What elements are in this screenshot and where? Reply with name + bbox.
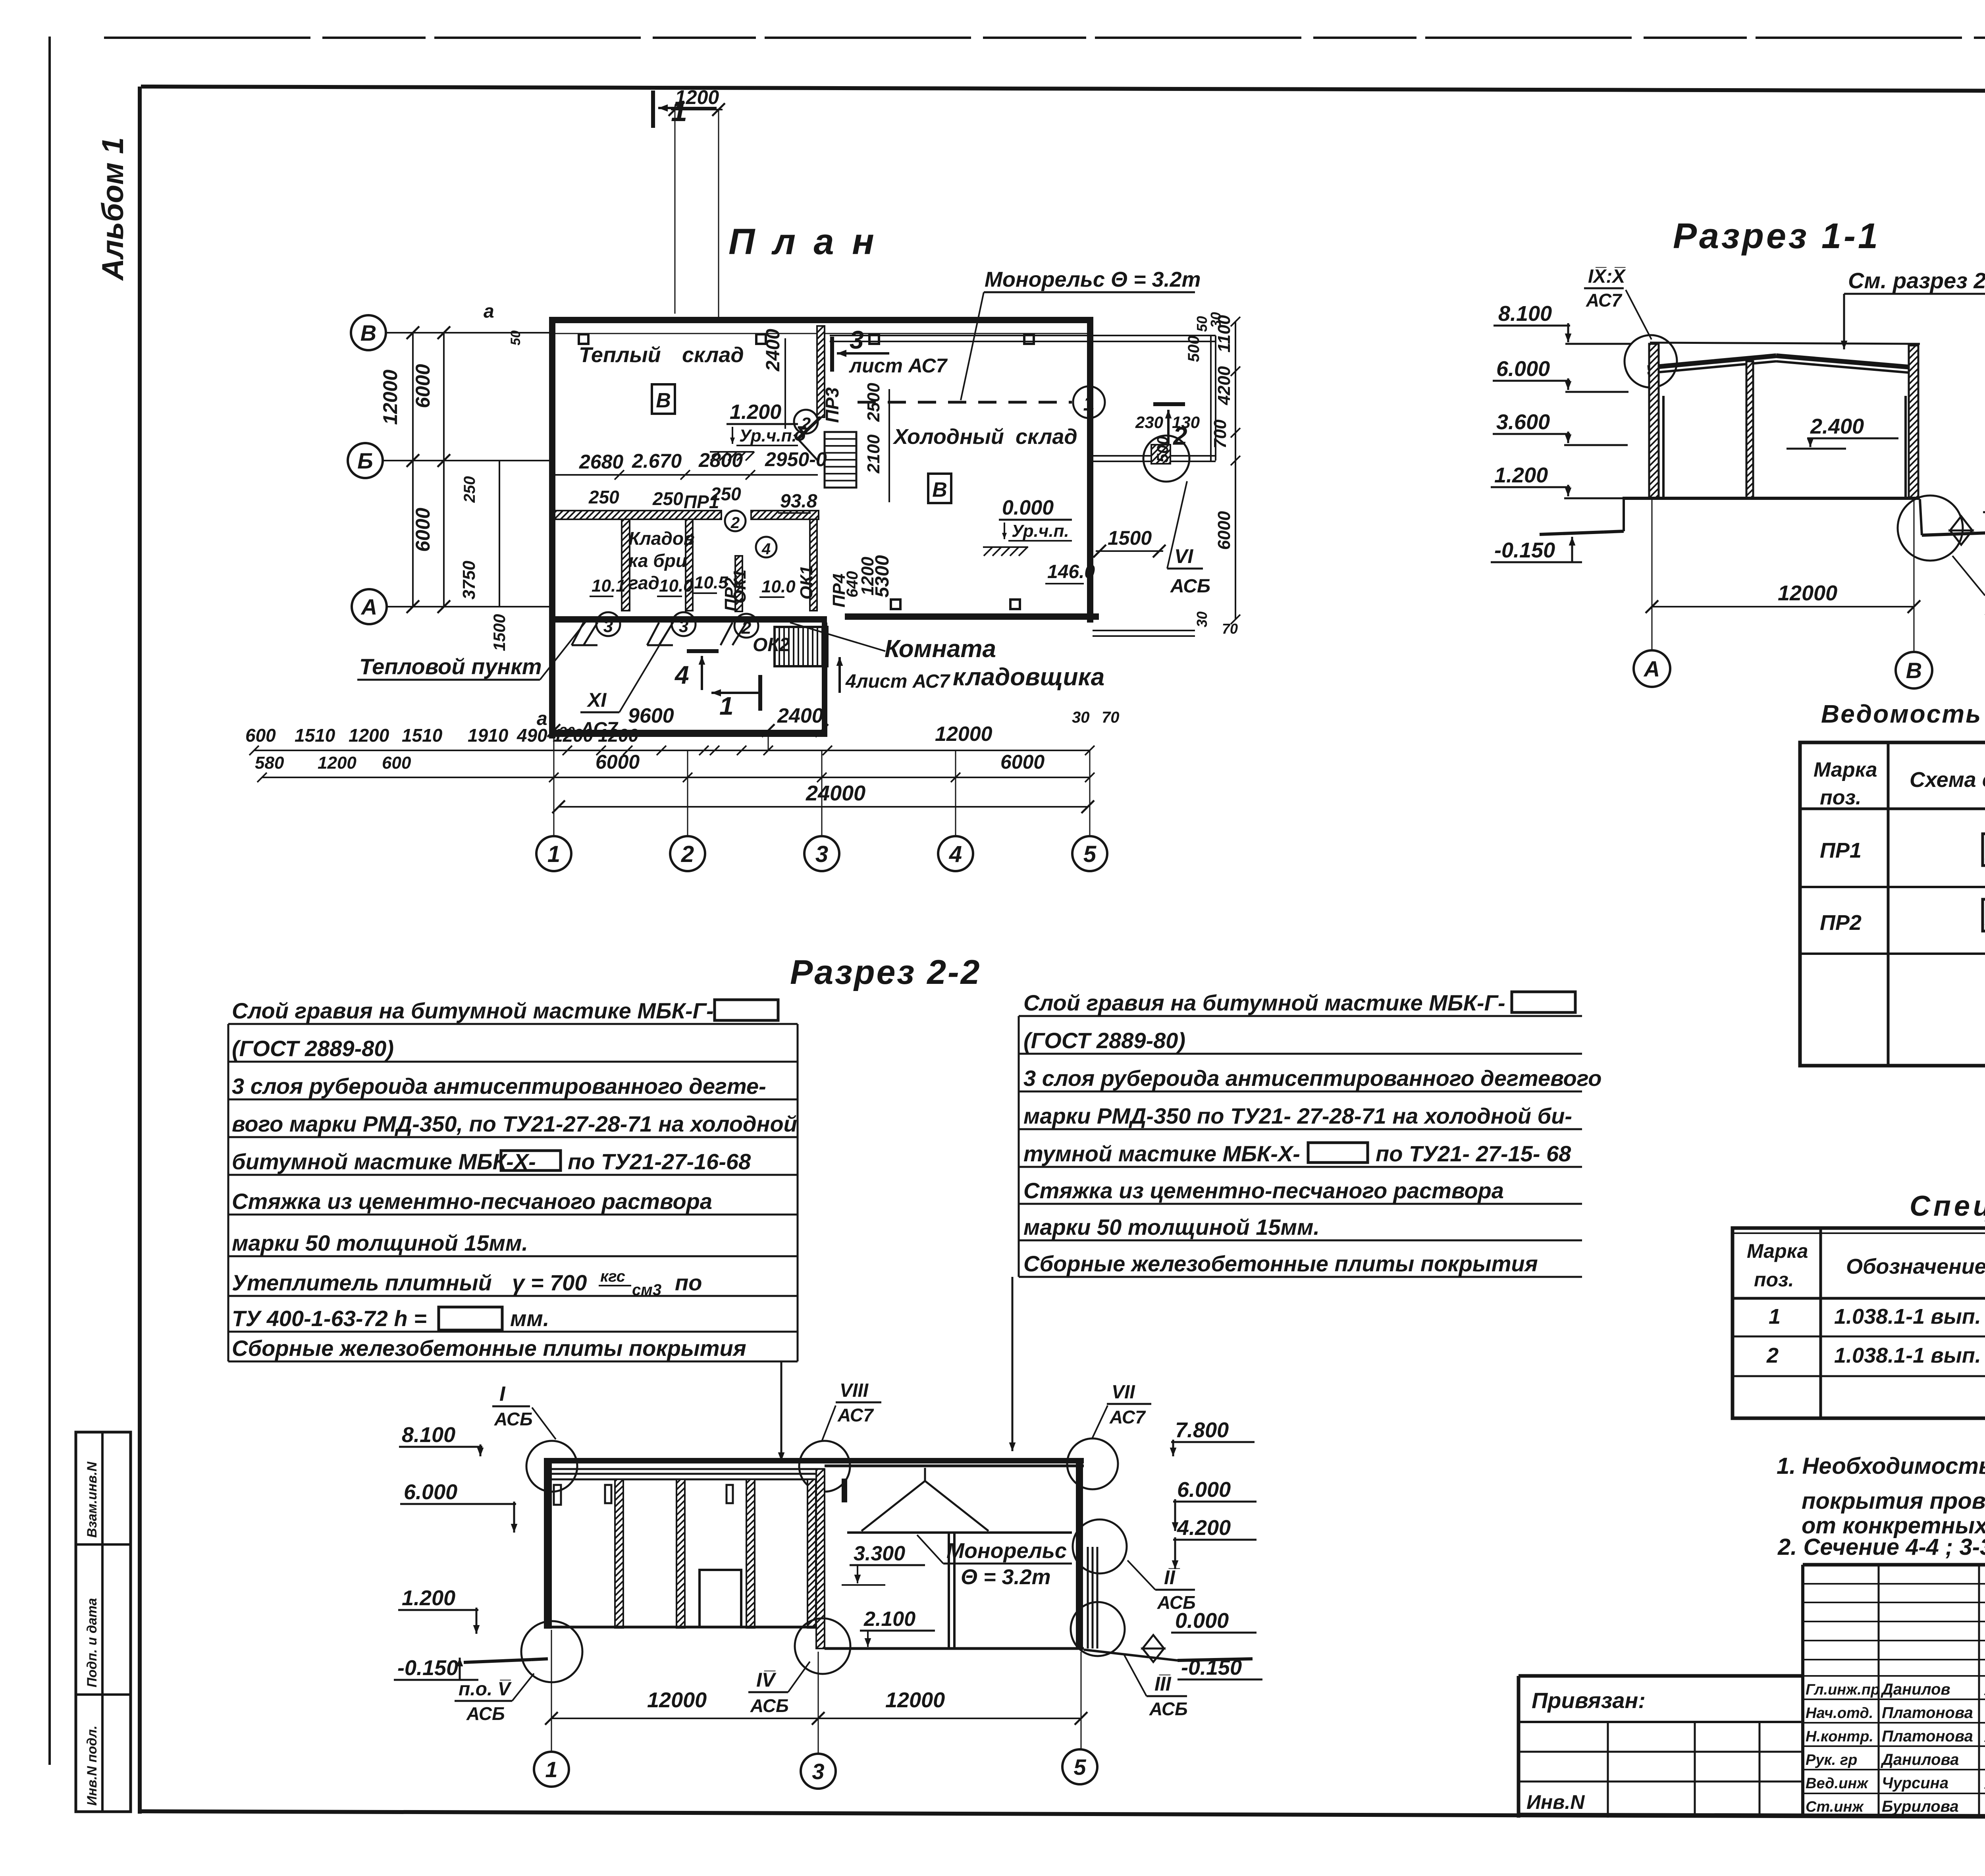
plan grid bubbles [536,750,1107,871]
svg-text:5300: 5300 [872,555,893,598]
svg-text:Ур.ч.п.: Ур.ч.п. [1012,521,1069,541]
svg-text:1500: 1500 [1108,527,1152,549]
svg-text:1200: 1200 [553,725,594,746]
section 2-2 roof slab [544,1458,1084,1479]
svg-text:Сборные железобетонные плиты: Сборные железобетонные плиты покрытия [232,1336,746,1361]
svg-text:п.о. V̅: п.о. V̅ [459,1679,512,1700]
see section 2-2 note [1841,268,1985,349]
section 2-2 interior columns [605,1479,816,1628]
dims near stair bay [763,329,889,502]
svg-text:VIII: VIII [840,1380,869,1401]
svg-text:Марка: Марка [1747,1240,1808,1262]
title block outline [1519,1565,1985,1818]
detail mark V ACB right [1952,556,1985,619]
svg-text:В: В [1906,658,1922,683]
svg-text:490: 490 [516,725,547,746]
svg-text:Подп. и дата: Подп. и дата [85,1598,100,1687]
svg-text:500: 500 [1154,436,1172,463]
svg-text:Утеплитель плитный: Утеплитель плитный [232,1270,492,1295]
dims 230 130 at detail [1135,413,1200,432]
svg-text:4200: 4200 [1214,366,1234,405]
plan top exterior wall [549,317,1090,334]
leader arrows from spec text to section [778,1277,1016,1461]
section 2-2 door in hall [700,1570,741,1627]
svg-text:АСБ: АСБ [1149,1699,1188,1719]
svg-text:а: а [484,301,494,322]
svg-text:2400: 2400 [777,704,823,727]
svg-text:2.670: 2.670 [632,450,682,472]
svg-text:Монорельс Θ = 3.2т: Монорельс Θ = 3.2т [985,268,1201,291]
svg-text:Разрез 1-1: Разрез 1-1 [1673,216,1880,256]
section 1-1 level -0.150 [1491,537,1582,562]
plan dim 24000 [552,781,1094,813]
svg-text:1200: 1200 [675,86,719,108]
svg-text:1.038.1-1 вып. 1: 1.038.1-1 вып. 1 [1834,1344,1985,1367]
svg-text:АС7: АС7 [1109,1407,1146,1427]
svg-text:гад: гад [628,573,659,593]
svg-text:А: А [360,594,377,619]
svg-text:2.400: 2.400 [1810,415,1864,438]
door mark circles on south wall [596,612,758,638]
svg-text:В: В [360,320,376,345]
svg-text:2: 2 [681,841,694,867]
svg-text:3: 3 [679,617,688,636]
svg-text:битумной мастике МБК-Х-: битумной мастике МБК-Х- [232,1149,536,1174]
door mark circle 1 at monorail end [1073,386,1105,418]
svg-text:1: 1 [1083,392,1095,415]
svg-text:2400: 2400 [763,329,784,372]
svg-text:АСБ: АСБ [750,1695,789,1716]
svg-text:Слой гравия на битумной маст: Слой гравия на битумной мастике МБК-Г- [1023,990,1505,1015]
section mark 3 with sheet note [832,326,948,377]
dim 1500 at right wall [1093,527,1166,557]
svg-text:Нач.отд.: Нач.отд. [1806,1705,1873,1722]
svg-text:Монорельс: Монорельс [946,1539,1067,1563]
svg-text:0.000: 0.000 [1002,496,1054,519]
svg-text:1: 1 [719,692,734,720]
svg-text:Вед.инж: Вед.инж [1806,1775,1869,1792]
interior partition walls (hatched) [622,519,817,611]
svg-text:1.200: 1.200 [1494,463,1548,487]
dim row 2680 2670 2800 2950-0 [555,448,827,480]
svg-text:10.0: 10.0 [761,577,796,596]
svg-text:6.000: 6.000 [1496,357,1550,381]
svg-text:марки 50 толщиной 15мм.: марки 50 толщиной 15мм. [232,1230,528,1255]
svg-text:кладовщика: кладовщика [953,663,1104,691]
section mark 2 right [1153,404,1187,453]
room label warm storage [579,343,744,367]
svg-text:1. Необходимость устройства: 1. Необходимость устройства пароизоляции… [1777,1453,1985,1479]
section 2-2 grid bubbles [534,1749,1097,1789]
stair bay wall with diagonal [794,326,825,461]
svg-text:Стяжка из цементно-песчаного: Стяжка из цементно-песчаного раствора [232,1189,712,1214]
svg-text:по: по [675,1270,702,1295]
detail mark po V ACB [455,1674,534,1724]
svg-text:ПР1: ПР1 [1820,839,1862,862]
svg-text:230: 230 [1135,413,1163,432]
svg-text:лист АС7: лист АС7 [849,355,948,377]
svg-text:АСБ: АСБ [466,1703,505,1724]
svg-text:10.0: 10.0 [659,576,693,596]
svg-text:ка бри: ка бри [628,550,687,571]
svg-text:Сборные железобетонные плиты: Сборные железобетонные плиты покрытия [1023,1251,1538,1276]
svg-text:(ГОСТ 2889-80): (ГОСТ 2889-80) [1023,1028,1185,1053]
svg-text:Θ = 3.2т: Θ = 3.2т [961,1565,1051,1589]
svg-text:XI: XI [586,689,607,711]
svg-text:1200: 1200 [349,725,389,746]
svg-text:1: 1 [545,1757,557,1782]
svg-text:Н.контр.: Н.контр. [1806,1728,1873,1745]
svg-text:1510: 1510 [295,725,335,746]
svg-text:АСБ: АСБ [1170,576,1210,597]
section 2-2 level 2.100 [860,1608,935,1647]
svg-text:4.200: 4.200 [1177,1516,1231,1540]
left margin stamp table [76,1432,131,1812]
svg-text:30: 30 [1072,709,1090,726]
svg-text:ПР2: ПР2 [1820,911,1862,935]
svg-text:3 слоя рубероида антисептир: 3 слоя рубероида антисептированного дегт… [1023,1066,1601,1091]
svg-text:ОК2: ОК2 [753,634,790,656]
svg-text:Рук. гр: Рук. гр [1806,1752,1857,1768]
svg-text:70: 70 [1222,621,1238,637]
plan annex right wall [822,623,827,737]
section 1-1 center column [1746,361,1753,498]
section 2-2 right hall center column [949,1533,954,1648]
svg-text:1: 1 [547,841,560,867]
label heat point [357,619,588,680]
svg-text:130: 130 [1172,413,1200,432]
entrance stair OK2 [775,627,827,666]
svg-text:Платонова: Платонова [1882,1728,1973,1745]
svg-text:6000: 6000 [412,508,434,552]
svg-text:5: 5 [1083,841,1097,867]
section 1-1 ground left [1540,499,1624,534]
svg-text:мм.: мм. [510,1306,549,1331]
lintel specification table [1733,1228,1985,1418]
svg-text:покрытия проверяется при п: покрытия проверяется при привязке в зави… [1802,1488,1985,1514]
svg-text:4: 4 [761,540,771,558]
monorail dashed line in plan [858,401,1072,404]
section 1-1 axis bubbles [1634,650,1932,688]
svg-text:ТУ 400-1-63-72 h =: ТУ 400-1-63-72 h = [232,1306,427,1331]
section 1-1 left column [1649,344,1663,498]
svg-text:АСБ: АСБ [1157,1592,1196,1613]
section 1-1 right column [1906,345,1918,498]
svg-text:2950-0: 2950-0 [765,448,827,470]
section mark 1 bottom [711,675,760,720]
section mark 1 top [653,91,717,128]
svg-text:склад: склад [1016,425,1077,449]
svg-text:12000: 12000 [647,1688,707,1712]
level mark 1.200 in plan [710,401,806,461]
svg-text:500: 500 [1185,335,1203,362]
svg-text:6.000: 6.000 [1177,1478,1231,1502]
svg-text:30: 30 [1208,312,1224,328]
svg-text:1.200: 1.200 [402,1586,455,1610]
area values in rooms [590,491,1095,597]
section 2-2 right level -0.150 [1178,1656,1262,1679]
door mark circles in partitions [725,410,818,558]
svg-text:по ТУ21-27-16-68: по ТУ21-27-16-68 [568,1149,751,1174]
svg-text:Инв.N: Инв.N [1526,1791,1585,1813]
svg-text:IV̅: IV̅ [756,1669,777,1691]
leader to storekeeper room [790,623,885,651]
svg-text:9600: 9600 [628,704,674,727]
svg-text:Схема сечения: Схема сечения [1910,768,1985,792]
svg-text:2: 2 [730,514,740,532]
svg-text:250: 250 [710,484,741,504]
svg-text:Альбом 1: Альбом 1 [96,137,130,281]
section 1-1 detail mark IX:X AC7 [1584,266,1677,388]
vertical text OK1 PR2 [721,555,893,611]
svg-text:АС7: АС7 [837,1405,874,1425]
plan right exterior wall at grid 5 [1087,317,1093,623]
svg-text:ОК1: ОК1 [797,565,816,600]
svg-text:250: 250 [652,488,683,509]
svg-text:Обозначение: Обозначение [1846,1255,1985,1278]
title block signature grid [1803,1565,1985,1818]
svg-text:70: 70 [1102,709,1120,726]
svg-text:I: I [499,1382,506,1406]
svg-text:Ведомость перемычек: Ведомость перемычек [1821,700,1985,728]
plan south wall [549,600,1099,623]
svg-text:2100: 2100 [864,434,883,474]
svg-text:10.1: 10.1 [592,576,626,596]
door swing flaps below south wall [572,623,746,645]
svg-text:6.000: 6.000 [404,1480,457,1504]
left axis bubbles and dims [348,301,549,729]
section 2-2 dims 12000 12000 [545,1630,1087,1754]
detail mark XI AC7 [580,619,675,740]
section 1-1 ground right [1920,499,1985,535]
section 2-2 monorail label [917,1535,1072,1589]
svg-text:1500: 1500 [490,614,509,651]
svg-text:12000: 12000 [379,370,401,425]
svg-text:П л а н: П л а н [728,222,878,262]
svg-text:2: 2 [801,414,811,434]
section mark 4 sheet note bottom [836,657,951,693]
svg-text:АС7: АС7 [1586,290,1623,310]
svg-text:7.800: 7.800 [1175,1418,1229,1442]
svg-text:вого марки РМД-350, по ТУ21-2: вого марки РМД-350, по ТУ21-27-28-71 на … [232,1111,797,1136]
lintel schedule left table [1800,742,1985,1066]
svg-text:3: 3 [850,326,864,354]
svg-text:Платонова: Платонова [1882,1704,1973,1722]
svg-text:Стяжка из цементно-песчаного: Стяжка из цементно-песчаного раствора [1023,1178,1504,1203]
svg-text:250: 250 [588,487,619,507]
svg-text:30: 30 [1194,611,1210,627]
svg-text:марки 50 толщиной 15мм.: марки 50 толщиной 15мм. [1023,1215,1320,1240]
svg-text:600: 600 [245,725,276,746]
section 2-2 detail mark VII AC7 [1067,1382,1151,1489]
svg-text:1200: 1200 [318,753,357,773]
svg-text:700: 700 [1210,419,1230,449]
svg-text:тумной мастике МБК-Х-: тумной мастике МБК-Х- [1023,1141,1300,1166]
svg-text:Б: Б [357,448,373,473]
svg-text:VII: VII [1112,1382,1135,1403]
section 2-2 right wall [1076,1460,1097,1648]
svg-text:В: В [932,478,947,501]
svg-text:Ур.ч.п.: Ур.ч.п. [739,426,797,445]
section mark 4 bottom [674,651,719,690]
detail mark IV ACB [748,1662,810,1716]
svg-text:1510: 1510 [402,725,443,746]
apron outline right of plan [830,335,1216,636]
section 2-2 ground lines [464,1650,1253,1662]
svg-text:γ = 700: γ = 700 [512,1270,587,1295]
section 2-2 right level 0.000 [1143,1609,1257,1662]
boxed mark V warm storage [652,384,675,414]
plan bottom dimension rows [547,704,1120,818]
svg-text:1.038.1-1 вып. 1: 1.038.1-1 вып. 1 [1834,1305,1985,1328]
svg-text:6000: 6000 [1214,511,1234,550]
svg-text:1910: 1910 [468,725,509,746]
section 2-2 detail circles bottom [521,1519,1127,1682]
svg-text:(ГОСТ 2889-80): (ГОСТ 2889-80) [232,1036,394,1061]
svg-text:93.8: 93.8 [780,491,817,512]
svg-text:12000: 12000 [885,1688,945,1712]
plan annex south wall [549,731,827,737]
svg-text:3.300: 3.300 [854,1542,905,1565]
section 1-1 dim 12000 [1646,499,1920,651]
svg-text:4: 4 [949,841,962,867]
section 2-2 right hall roof truss [847,1468,1072,1533]
svg-text:6000: 6000 [1000,751,1045,773]
roof build-up spec text right block [1019,990,1601,1277]
svg-text:склад: склад [682,343,744,367]
boxed mark V cold storage [928,474,951,503]
plan left exterior wall [549,317,555,738]
svg-text:Марка: Марка [1813,758,1877,781]
svg-text:3.600: 3.600 [1496,410,1550,434]
svg-text:См. разрез 2-2: См. разрез 2-2 [1848,268,1985,293]
svg-text:Бурилова: Бурилова [1882,1798,1959,1815]
notes text [1777,1453,1985,1560]
svg-text:1: 1 [1769,1305,1781,1328]
svg-text:Гл.инж.пр: Гл.инж.пр [1806,1681,1880,1698]
svg-text:кгс: кгс [600,1268,625,1285]
svg-text:4лист АС7: 4лист АС7 [845,671,951,692]
svg-text:2800: 2800 [698,449,743,471]
svg-text:3: 3 [815,841,828,867]
section 2-2 floor left [548,1626,825,1629]
room label brigades closet [628,528,695,593]
svg-text:Взам.инв.N: Взам.инв.N [85,1461,100,1538]
plan wall pier marks [579,334,1034,344]
svg-text:IX̅:X̅: IX̅:X̅ [1588,266,1626,287]
svg-text:3 слоя рубероида антисептиро: 3 слоя рубероида антисептированного дегт… [232,1074,766,1099]
svg-text:2500: 2500 [864,383,883,422]
svg-text:4: 4 [674,661,689,689]
section 2-2 left column [544,1458,561,1629]
svg-text:1200: 1200 [598,725,639,746]
section 1-1 detail circle right [1898,496,1963,561]
section 1-1 right levels 0.000 -0.150 [1950,488,1985,560]
svg-text:12000: 12000 [935,723,992,746]
plan small dims row [245,723,1095,755]
svg-text:Комната: Комната [885,635,996,663]
svg-text:Кладов: Кладов [628,528,695,549]
section 1-1 floor line [1623,497,1920,500]
svg-text:А: А [1643,656,1660,681]
dim 1200 top [669,86,725,317]
level mark 0.000 in plan [983,496,1072,556]
svg-text:Слой гравия на битумной масти: Слой гравия на битумной мастике МБК-Г- [232,998,714,1023]
svg-text:Привязан:: Привязан: [1532,1688,1646,1713]
svg-text:5: 5 [1073,1755,1086,1780]
signature rows text [1806,1681,1985,1815]
svg-text:2680: 2680 [579,451,623,473]
svg-text:50: 50 [508,330,523,345]
section 2-2 floor right [825,1647,1084,1650]
right dimension chain of plan [1154,312,1240,637]
svg-text:Тепловой пункт: Тепловой пункт [359,654,542,679]
svg-text:-0.150: -0.150 [1494,538,1555,562]
svg-text:8.100: 8.100 [402,1423,455,1447]
section 2-2 level 3.300 [842,1542,925,1585]
lintel section diagram PR2 [1983,892,1985,931]
svg-text:146.0: 146.0 [1047,561,1095,582]
svg-text:VI: VI [1174,545,1193,567]
room label cold storage [892,425,1077,449]
interior wall on axis B (hatched) [555,511,819,519]
section 1-1 roof [1648,343,1920,373]
svg-text:АСБ: АСБ [494,1409,533,1429]
svg-text:2: 2 [1766,1344,1779,1367]
svg-text:3: 3 [812,1759,824,1784]
svg-text:Разрез 2-2: Разрез 2-2 [790,953,981,991]
svg-text:8.100: 8.100 [1498,302,1552,326]
svg-text:-0.150: -0.150 [397,1656,458,1680]
svg-text:В: В [656,389,671,412]
svg-text:ПР2: ПР2 [721,577,741,611]
svg-text:поз.: поз. [1820,786,1862,809]
detail mark III ACB right [1124,1654,1188,1719]
section 2-2 detail mark I ACB [492,1382,577,1492]
section 1-1 level 2.400 mark [1786,415,1898,449]
svg-text:24000: 24000 [806,781,865,805]
svg-text:марки РМД-350 по ТУ21- 27-28-: марки РМД-350 по ТУ21- 27-28-71 на холод… [1023,1103,1572,1128]
svg-text:580: 580 [255,753,284,773]
svg-text:Теплый: Теплый [579,343,661,367]
svg-text:3: 3 [603,617,613,636]
detail circle VI at right wall [1143,436,1210,597]
privyazan box [1519,1688,1803,1818]
monorail label [961,268,1201,400]
section 2-2 level -0.150 left [394,1656,478,1680]
svg-text:Чурсина: Чурсина [1882,1774,1948,1792]
svg-text:Холодный: Холодный [892,425,1004,449]
dim row 250 250 PR1 250 93.8 [588,484,741,512]
svg-text:6000: 6000 [412,364,434,408]
plan dims row 580 1200 600 6000 [255,751,1095,782]
svg-text:12000: 12000 [1778,581,1837,605]
svg-text:Ст.инж: Ст.инж [1806,1799,1864,1815]
svg-text:ПР3: ПР3 [822,387,842,423]
svg-text:-0.150: -0.150 [1181,1656,1242,1679]
lintel section diagram PR1 [1983,826,1985,866]
roof build-up spec text left block [228,998,798,1361]
stair flight in plan [825,432,856,488]
detail mark II ACB right [1127,1560,1196,1613]
section 2-2 detail mark VIII AC7 [799,1380,881,1492]
svg-text:Данилов: Данилов [1881,1681,1950,1698]
svg-text:Спецификация перемычек: Спецификация перемычек [1910,1190,1985,1222]
svg-text:по ТУ21- 27-15- 68: по ТУ21- 27-15- 68 [1376,1141,1571,1166]
svg-text:2. Сечение 4-4 ; 3-3 см. чер: 2. Сечение 4-4 ; 3-3 см. чертеж АС 7 [1777,1534,1985,1560]
section 2-2 wall at grid 3 [816,1469,847,1648]
svg-text:250: 250 [461,476,478,503]
